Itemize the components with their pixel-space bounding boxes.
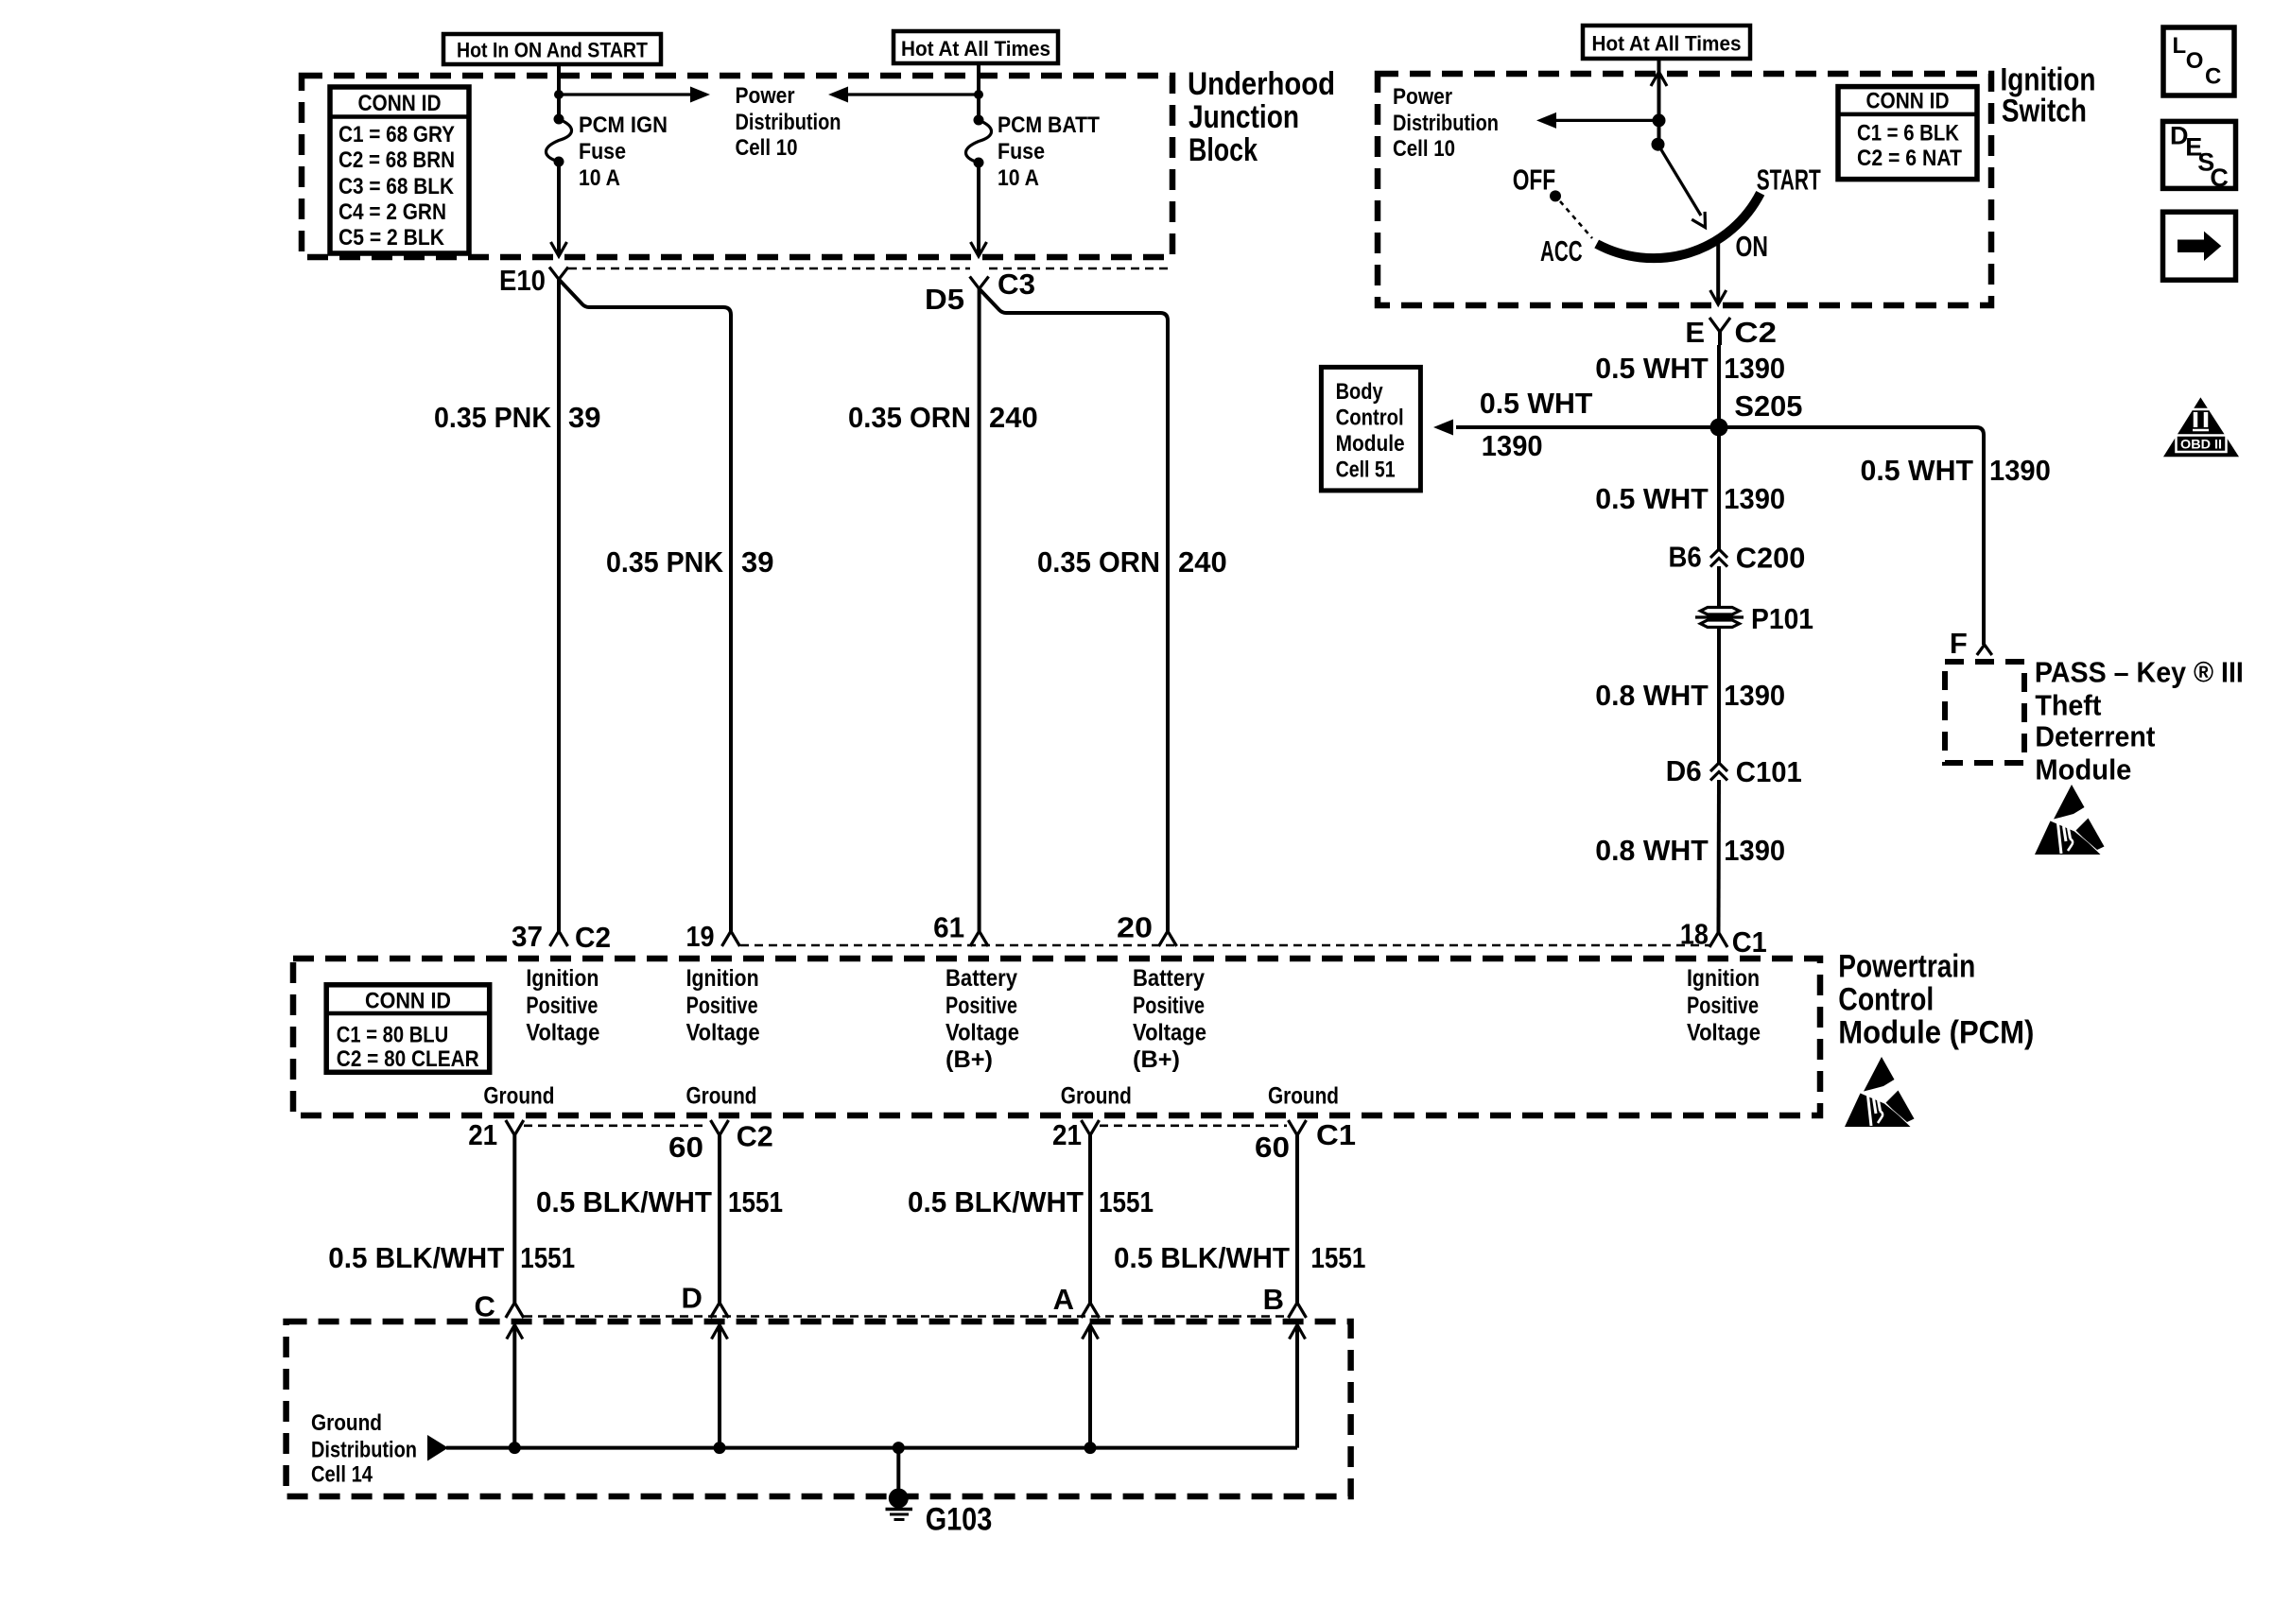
svg-text:0.5 WHT: 0.5 WHT xyxy=(1480,387,1593,420)
wire D6 down to pin 18 xyxy=(1717,780,1722,932)
in-line connector D6 C101 xyxy=(1710,763,1727,771)
svg-text:B6: B6 xyxy=(1669,541,1702,574)
svg-text:Cell 10: Cell 10 xyxy=(1393,136,1455,162)
ground G103 xyxy=(886,1448,913,1520)
svg-text:ON: ON xyxy=(1736,230,1768,263)
svg-text:Switch: Switch xyxy=(2002,93,2087,129)
svg-text:S205: S205 xyxy=(1734,389,1802,423)
connector pin 60 / C1 xyxy=(1289,1120,1307,1135)
wire P101 down to D6 xyxy=(1717,628,1721,763)
svg-text:0.35 PNK: 0.35 PNK xyxy=(434,401,552,434)
svg-text:37: 37 xyxy=(512,920,543,953)
svg-text:Distribution: Distribution xyxy=(1393,111,1499,136)
ground wire B (pin 60) xyxy=(1295,1135,1299,1303)
svg-text:(B+): (B+) xyxy=(1133,1046,1180,1073)
CONN ID table (underhood) xyxy=(330,87,469,253)
PASS-Key dashed box xyxy=(1945,662,2024,763)
wire: PCM BATT fuse feed xyxy=(977,63,980,120)
svg-text:1390: 1390 xyxy=(1724,679,1785,712)
svg-text:PCM IGN: PCM IGN xyxy=(579,112,668,138)
svg-text:C200: C200 xyxy=(1736,542,1806,575)
svg-text:C: C xyxy=(475,1290,495,1323)
fuse PCM IGN 10A xyxy=(546,119,571,162)
svg-text:Cell 14: Cell 14 xyxy=(311,1462,373,1488)
wire into ignition switch xyxy=(1651,59,1667,145)
svg-text:Voltage: Voltage xyxy=(1133,1019,1206,1045)
svg-text:C1: C1 xyxy=(1316,1118,1356,1151)
connector E / C2 xyxy=(1709,318,1730,332)
svg-text:Positive: Positive xyxy=(686,993,758,1019)
in-line connector B6 C200 xyxy=(1710,549,1727,558)
svg-text:OBD II: OBD II xyxy=(2180,437,2222,452)
connector D5 / C3 xyxy=(970,277,989,289)
ground wire C (pin 21) xyxy=(512,1135,516,1303)
svg-text:G103: G103 xyxy=(926,1502,993,1538)
svg-text:PCM BATT: PCM BATT xyxy=(998,112,1100,138)
svg-text:Hot At All Times: Hot At All Times xyxy=(1592,32,1742,56)
connector pin 21 (C1) xyxy=(1082,1120,1100,1135)
svg-text:Control: Control xyxy=(1336,406,1404,431)
connector pin 18 / C1 xyxy=(1709,932,1727,947)
svg-text:Distribution: Distribution xyxy=(311,1437,417,1462)
svg-text:Control: Control xyxy=(1838,982,1934,1018)
wire: branch to Power Distribution (right arrow) xyxy=(559,87,710,103)
svg-text:CONN ID: CONN ID xyxy=(365,989,451,1014)
wire S205 down xyxy=(1717,427,1721,549)
svg-text:1390: 1390 xyxy=(1989,454,2051,487)
svg-text:0.5 BLK/WHT: 0.5 BLK/WHT xyxy=(536,1185,712,1218)
ground wire D (pin 60) xyxy=(718,1135,721,1303)
branch arrow to power distribution xyxy=(1536,112,1659,129)
wire 0.35 ORN 240 (pin 61 run) xyxy=(978,289,981,932)
svg-text:Theft: Theft xyxy=(2035,689,2101,722)
svg-text:Distribution: Distribution xyxy=(736,110,842,135)
svg-text:Module: Module xyxy=(1336,431,1405,457)
svg-text:C1 = 80 BLU: C1 = 80 BLU xyxy=(337,1023,448,1048)
svg-text:Deterrent: Deterrent xyxy=(2035,720,2155,753)
svg-text:Power: Power xyxy=(736,83,795,109)
svg-text:Hot In ON And START: Hot In ON And START xyxy=(457,39,648,62)
svg-text:CONN ID: CONN ID xyxy=(358,91,442,116)
svg-text:Cell 10: Cell 10 xyxy=(736,135,798,161)
ESD icon near PCM xyxy=(1845,1057,1915,1127)
svg-text:CONN ID: CONN ID xyxy=(1866,89,1950,114)
svg-text:OFF: OFF xyxy=(1513,163,1556,196)
svg-text:C2 = 6 NAT: C2 = 6 NAT xyxy=(1857,146,1962,171)
wire branch right to PASS-Key (F) xyxy=(1719,427,1984,645)
underhood junction block dashed box xyxy=(302,76,1172,257)
svg-text:C2: C2 xyxy=(737,1119,773,1152)
svg-text:Powertrain: Powertrain xyxy=(1838,949,1975,985)
svg-text:0.5 BLK/WHT: 0.5 BLK/WHT xyxy=(1114,1241,1290,1274)
ESD icon near PASS-Key xyxy=(2035,785,2105,855)
connector E10 xyxy=(549,268,568,280)
wire E/C2 down to S205 xyxy=(1717,345,1721,427)
junction node at fuse feed xyxy=(554,90,564,99)
label box "Hot At All Times" (left) xyxy=(894,31,1058,63)
svg-text:C101: C101 xyxy=(1736,755,1802,788)
svg-text:Voltage: Voltage xyxy=(526,1019,599,1045)
svg-text:Ground: Ground xyxy=(686,1082,757,1109)
svg-text:0.8 WHT: 0.8 WHT xyxy=(1595,834,1709,867)
svg-text:Voltage: Voltage xyxy=(686,1019,760,1045)
thin dashed connector line under junction block xyxy=(568,268,970,270)
svg-text:Voltage: Voltage xyxy=(946,1019,1019,1045)
svg-text:C3 = 68 BLK: C3 = 68 BLK xyxy=(338,174,455,199)
svg-text:Hot At All Times: Hot At All Times xyxy=(901,37,1050,60)
svg-text:Fuse: Fuse xyxy=(998,139,1045,164)
svg-text:0.5 BLK/WHT: 0.5 BLK/WHT xyxy=(908,1185,1084,1218)
svg-text:Ground: Ground xyxy=(311,1410,382,1436)
junction dots xyxy=(1653,113,1666,127)
wire: PCM IGN fuse feed xyxy=(557,64,561,119)
arrows from bus up into connectors C D A B xyxy=(507,1325,523,1448)
svg-text:Junction: Junction xyxy=(1189,99,1299,135)
connector pin 20 xyxy=(1159,931,1177,946)
svg-text:39: 39 xyxy=(568,401,600,434)
svg-text:60: 60 xyxy=(1255,1131,1290,1164)
svg-text:Module (PCM): Module (PCM) xyxy=(1838,1015,2034,1051)
wire 0.35 PNK 39 (pin 37 run) xyxy=(557,280,561,932)
svg-text:61: 61 xyxy=(933,910,964,943)
svg-text:C1 = 68 GRY: C1 = 68 GRY xyxy=(338,122,455,147)
svg-text:D: D xyxy=(682,1282,703,1315)
svg-text:C4 = 2 GRN: C4 = 2 GRN xyxy=(338,199,446,225)
thin dashed line connecting C-D-A-B xyxy=(524,1315,1288,1318)
svg-text:C3: C3 xyxy=(998,268,1035,301)
OFF position dot and dotted line xyxy=(1550,190,1561,201)
svg-text:L: L xyxy=(2173,33,2187,59)
svg-text:C2 = 80 CLEAR: C2 = 80 CLEAR xyxy=(337,1046,479,1072)
connector pin 21 (C2) xyxy=(506,1120,524,1135)
svg-text:Ground: Ground xyxy=(1061,1082,1132,1109)
thin dashed connector line above PCM xyxy=(740,944,1709,947)
svg-text:C: C xyxy=(2210,164,2229,192)
label box "Hot In ON And START" xyxy=(443,34,661,64)
svg-text:1551: 1551 xyxy=(1310,1241,1365,1274)
svg-text:60: 60 xyxy=(668,1131,703,1164)
wire to P101 xyxy=(1717,566,1721,606)
svg-text:39: 39 xyxy=(741,545,773,579)
DESC reference box xyxy=(2163,121,2236,192)
svg-text:240: 240 xyxy=(989,401,1038,434)
switch contact arc xyxy=(1597,193,1761,258)
CONN ID table (ignition) xyxy=(1838,87,1977,180)
svg-text:0.5 WHT: 0.5 WHT xyxy=(1595,352,1709,385)
ignition switch dashed box xyxy=(1378,74,1991,305)
svg-text:Ignition: Ignition xyxy=(1687,965,1760,992)
svg-text:O: O xyxy=(2186,48,2204,74)
svg-text:C: C xyxy=(2205,64,2221,90)
svg-text:Battery: Battery xyxy=(1133,965,1205,992)
wire branch to pin 20 xyxy=(980,289,1168,932)
svg-text:10 A: 10 A xyxy=(998,165,1039,191)
svg-text:1390: 1390 xyxy=(1724,352,1785,385)
svg-text:Battery: Battery xyxy=(946,965,1017,992)
svg-text:C2: C2 xyxy=(1734,316,1777,349)
svg-text:Voltage: Voltage xyxy=(1687,1019,1761,1045)
PCM dashed box xyxy=(293,959,1820,1115)
svg-text:0.35 ORN: 0.35 ORN xyxy=(848,401,971,434)
svg-text:PASS – Key ® III: PASS – Key ® III xyxy=(2035,655,2244,688)
svg-text:Positive: Positive xyxy=(526,993,598,1019)
svg-text:F: F xyxy=(1950,627,1968,660)
svg-text:C1: C1 xyxy=(1732,925,1767,959)
connector pin 37 / C2 xyxy=(550,931,568,946)
label box "Hot At All Times" (ignition) xyxy=(1583,26,1750,59)
svg-text:START: START xyxy=(1757,163,1821,196)
svg-text:Positive: Positive xyxy=(946,993,1017,1019)
connector pin 61 xyxy=(970,931,988,946)
connector B xyxy=(1289,1303,1307,1318)
connector pin 19 xyxy=(722,931,740,946)
connector D xyxy=(711,1303,729,1318)
wire: branch to Power Distribution (left arrow) xyxy=(828,87,979,103)
svg-text:Fuse: Fuse xyxy=(579,139,626,164)
svg-text:Module: Module xyxy=(2035,753,2131,786)
svg-text:C2: C2 xyxy=(575,921,611,954)
LOC reference box xyxy=(2163,27,2234,95)
svg-text:19: 19 xyxy=(686,920,715,953)
wire: fuse to C3 with down arrow xyxy=(971,163,987,256)
svg-text:0.8 WHT: 0.8 WHT xyxy=(1595,679,1709,712)
svg-text:E10: E10 xyxy=(499,264,546,297)
svg-text:1551: 1551 xyxy=(728,1185,783,1218)
svg-text:Underhood: Underhood xyxy=(1188,66,1335,102)
wire branch to pin 19 xyxy=(559,280,731,932)
connector A xyxy=(1082,1303,1100,1318)
svg-text:1390: 1390 xyxy=(1724,482,1785,515)
svg-text:1390: 1390 xyxy=(1724,834,1785,867)
svg-text:18: 18 xyxy=(1680,917,1709,950)
connector pin 60 / C2 xyxy=(711,1120,729,1135)
svg-text:D6: D6 xyxy=(1666,754,1702,787)
svg-text:21: 21 xyxy=(1052,1118,1082,1151)
CONN ID table (PCM) xyxy=(326,985,490,1073)
wire branch left to BCM (arrow) xyxy=(1433,420,1719,436)
svg-text:C2 = 68 BRN: C2 = 68 BRN xyxy=(338,147,455,173)
connector C xyxy=(506,1303,524,1318)
ground distribution dashed box xyxy=(286,1322,1351,1496)
svg-text:21: 21 xyxy=(468,1118,497,1151)
junction dots on bus xyxy=(509,1442,521,1454)
ground bus with source triangle xyxy=(427,1435,1297,1461)
svg-text:C1 = 6 BLK: C1 = 6 BLK xyxy=(1857,121,1960,147)
svg-text:D5: D5 xyxy=(925,283,964,316)
svg-text:Power: Power xyxy=(1393,84,1452,110)
svg-text:1390: 1390 xyxy=(1482,429,1543,462)
svg-text:Ignition: Ignition xyxy=(686,965,759,992)
OBD II symbol xyxy=(2163,397,2239,457)
box Body Control Module Cell 51 xyxy=(1321,367,1420,491)
svg-text:Ignition: Ignition xyxy=(526,965,599,992)
svg-text:Ground: Ground xyxy=(1268,1082,1339,1109)
svg-text:Ground: Ground xyxy=(483,1082,554,1109)
svg-text:20: 20 xyxy=(1117,910,1153,943)
connector F xyxy=(1977,645,1992,655)
svg-text:B: B xyxy=(1263,1283,1284,1316)
svg-text:(B+): (B+) xyxy=(946,1046,993,1073)
svg-text:Body: Body xyxy=(1336,379,1384,405)
forward arrow box xyxy=(2163,212,2236,280)
svg-text:0.5 WHT: 0.5 WHT xyxy=(1861,454,1974,487)
switch lever with arrowhead xyxy=(1658,145,1706,228)
svg-text:0.5 WHT: 0.5 WHT xyxy=(1595,482,1709,515)
wire: fuse to E10 with down arrow xyxy=(551,162,567,256)
svg-text:E: E xyxy=(1685,316,1705,349)
svg-text:A: A xyxy=(1053,1283,1074,1316)
grommet P101 xyxy=(1695,608,1744,628)
svg-text:Positive: Positive xyxy=(1687,993,1759,1019)
svg-text:240: 240 xyxy=(1178,545,1227,579)
thin dashed line under PCM pins 21/60 xyxy=(524,1125,707,1128)
svg-text:C5 = 2 BLK: C5 = 2 BLK xyxy=(338,225,445,251)
svg-text:Block: Block xyxy=(1189,132,1258,168)
svg-text:1551: 1551 xyxy=(1099,1185,1154,1218)
svg-text:Positive: Positive xyxy=(1133,993,1205,1019)
wire out of ignition switch with down arrow xyxy=(1710,239,1726,304)
svg-text:0.35 ORN: 0.35 ORN xyxy=(1037,545,1160,579)
svg-text:ACC: ACC xyxy=(1540,234,1583,268)
svg-text:0.5 BLK/WHT: 0.5 BLK/WHT xyxy=(328,1241,504,1274)
ground wire A (pin 21) xyxy=(1088,1135,1092,1303)
fuse PCM BATT 10A xyxy=(965,120,991,163)
svg-text:1551: 1551 xyxy=(520,1241,575,1274)
svg-text:0.35 PNK: 0.35 PNK xyxy=(606,545,724,579)
svg-text:10 A: 10 A xyxy=(579,165,620,191)
svg-text:Cell 51: Cell 51 xyxy=(1336,458,1396,483)
svg-text:P101: P101 xyxy=(1751,602,1813,635)
